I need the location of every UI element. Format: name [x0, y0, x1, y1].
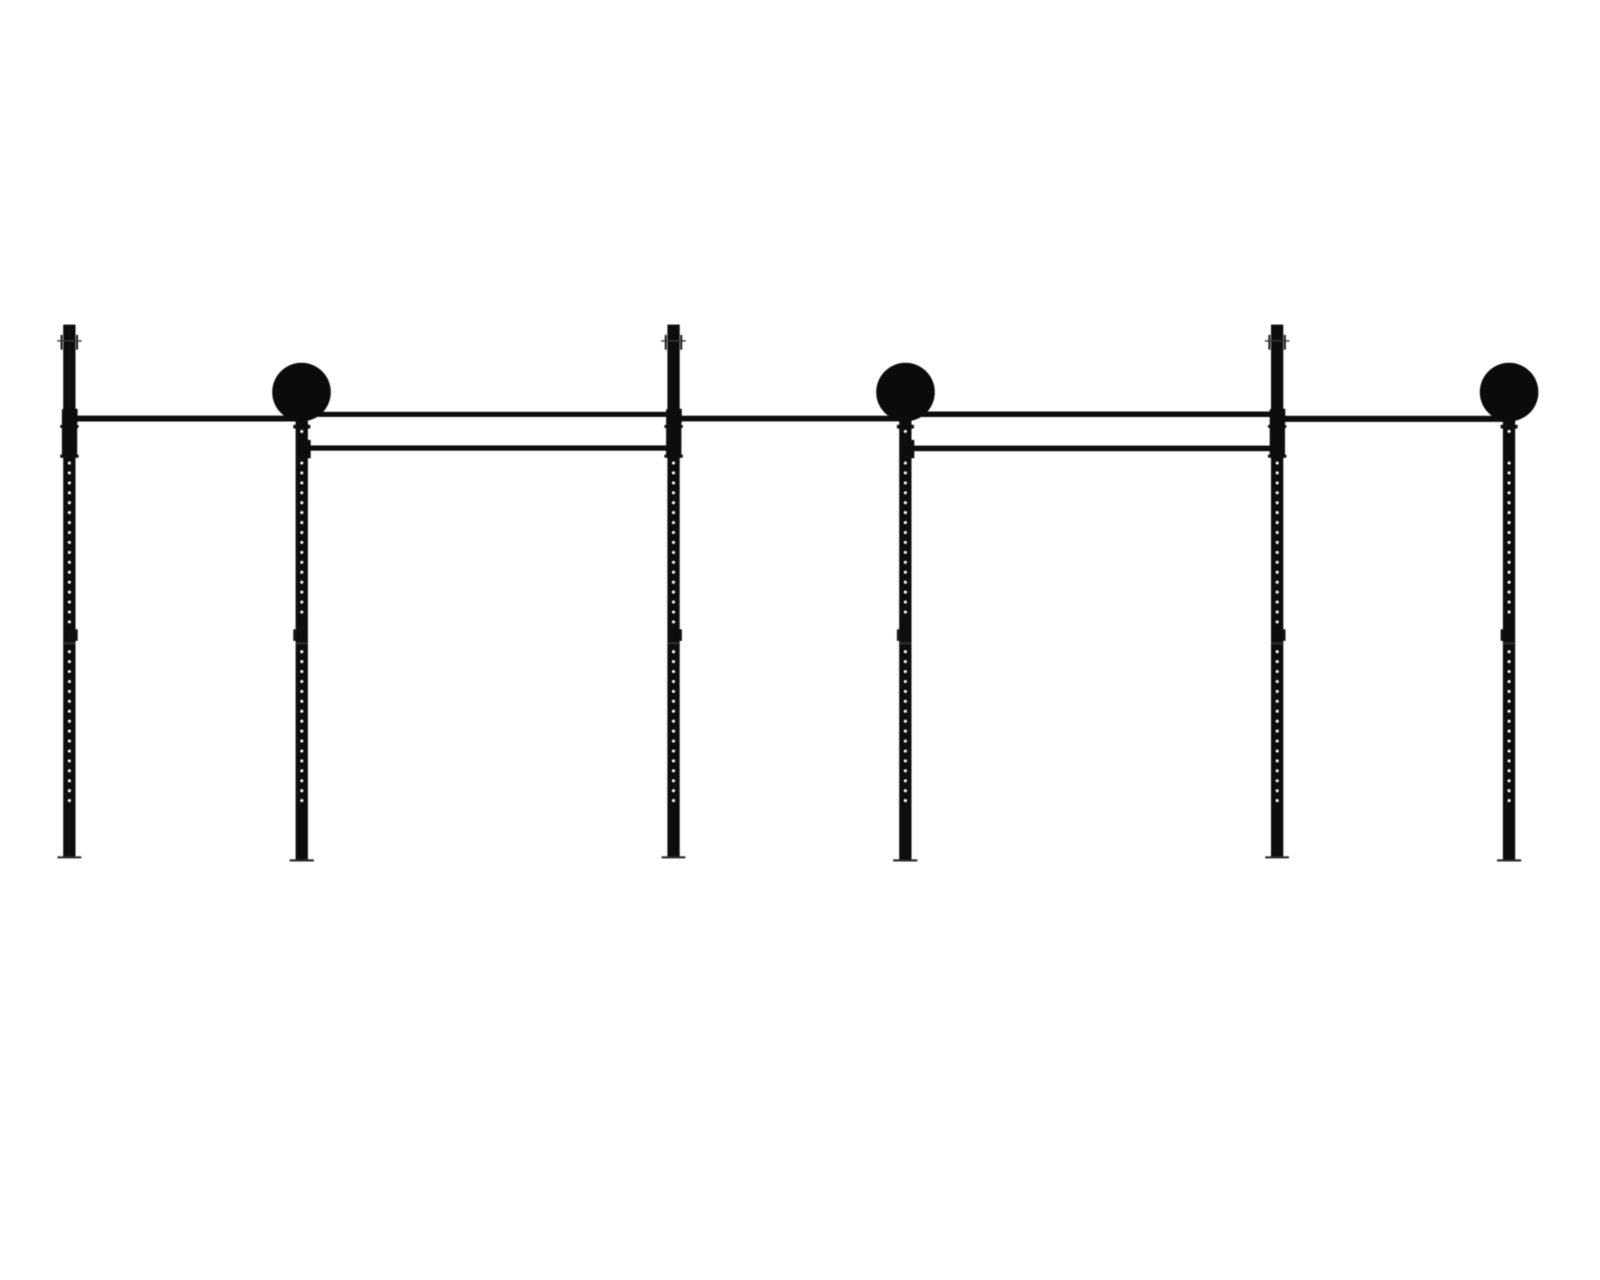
- joint tab B3: [1501, 629, 1503, 641]
- foot plate W3: [1265, 856, 1289, 858]
- joint tab W1: [75, 629, 77, 641]
- section seam W1: [63, 642, 75, 644]
- rear pull-up bar bay 2: [301, 412, 668, 417]
- wall bracket tabs W3: [1268, 335, 1285, 350]
- wall upright W2: [667, 325, 679, 858]
- adjustment holes B3: [1508, 430, 1511, 802]
- adjustment holes W2: [672, 461, 675, 802]
- foot plate B2: [893, 859, 917, 861]
- front ball-target upright B3: [1503, 412, 1515, 861]
- wall-ball target disc above B1: [272, 363, 331, 422]
- bar bracket at wall upright 3 right: [1283, 409, 1285, 423]
- pull-up bar bay 5: [1283, 416, 1510, 422]
- wall bracket pin W1: [57, 340, 82, 341]
- section seam B1: [296, 642, 308, 644]
- wall bracket tabs W1: [61, 335, 78, 350]
- wall-ball target disc above B3: [1480, 363, 1539, 422]
- adjustment holes B2: [904, 430, 907, 802]
- foot plate W2: [662, 856, 686, 858]
- target bracket wings B2: [897, 425, 914, 429]
- bar collar on W3: [1268, 409, 1286, 458]
- low-bar bracket B1: [305, 440, 310, 458]
- rear pull-up bar bay 4: [910, 412, 1273, 418]
- wall bracket pin W2: [661, 340, 686, 341]
- pull-up bar bay 1: [76, 416, 303, 422]
- wall bracket tabs W2: [665, 335, 682, 350]
- wall bracket pin W3: [1265, 340, 1290, 341]
- adjustment holes B1: [300, 430, 303, 802]
- front low bar bay 2: [305, 445, 668, 450]
- section seam W2: [667, 642, 679, 644]
- wall upright W1: [63, 325, 75, 858]
- bar collar on W1: [60, 409, 78, 458]
- target bracket wings B1: [293, 425, 310, 429]
- wall-ball target disc above B2: [876, 363, 935, 422]
- section seam B2: [899, 642, 911, 644]
- bar collar on W2: [664, 409, 682, 458]
- front low bar bay 4: [910, 446, 1273, 452]
- adjustment holes W1: [68, 461, 71, 802]
- bar bracket at wall upright 2 right: [680, 409, 682, 423]
- joint tab W2: [680, 629, 682, 641]
- low-bar bracket B2: [909, 440, 914, 458]
- foot plate W1: [58, 856, 82, 858]
- front ball-target upright B2: [899, 412, 911, 861]
- foot plate B1: [290, 859, 314, 861]
- foot plate B3: [1497, 859, 1521, 861]
- wall upright W3: [1271, 325, 1283, 858]
- joint tab W3: [1283, 629, 1285, 641]
- section seam W3: [1271, 642, 1283, 644]
- pull-up bar bay 3: [679, 416, 906, 422]
- section seam B3: [1503, 642, 1515, 644]
- adjustment holes W3: [1276, 461, 1279, 802]
- joint tab B1: [293, 629, 295, 641]
- front ball-target upright B1: [296, 412, 308, 861]
- joint tab B2: [897, 629, 899, 641]
- target bracket wings B3: [1501, 425, 1518, 429]
- bar bracket at wall upright 1: [75, 409, 77, 423]
